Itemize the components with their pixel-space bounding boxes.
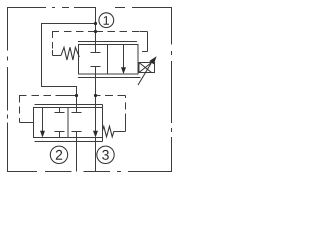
node A junction dot bbox=[94, 22, 97, 25]
pilot valve V1 flow arrow shaft bbox=[123, 45, 125, 69]
main valve V2 right envelope arrowhead bbox=[93, 131, 98, 138]
pilot line: node B to left envelope side bbox=[63, 95, 77, 97]
outer boundary right edge (chain line) bbox=[171, 7, 173, 172]
outer boundary bottom edge (chain line) bbox=[7, 171, 172, 173]
main valve V2 parallel line above bbox=[34, 104, 102, 106]
port 3 circle bbox=[97, 146, 114, 163]
main valve V2 right edge extension bbox=[102, 105, 104, 142]
node C junction dot bbox=[94, 30, 97, 33]
wire: pilot line below valve down to node D bbox=[95, 74, 97, 108]
main valve V2 spring pilot bracket bbox=[114, 121, 126, 132]
pilot valve V1 proportional line below bbox=[78, 77, 140, 79]
main valve V2 left envelope T bottom bbox=[55, 132, 65, 138]
pilot valve V1 proportional line above bbox=[78, 41, 137, 43]
pilot valve V1 envelope divider bbox=[107, 45, 109, 75]
wire: port 2 line bbox=[76, 138, 78, 172]
proportional solenoid S1 X diagonal 1 bbox=[139, 63, 152, 73]
curved / diagonal elements (anti-aliased) bbox=[50, 13, 151, 164]
main valve V2 left envelope arrowhead bbox=[40, 131, 45, 138]
port 1 circle bbox=[99, 13, 114, 28]
proportional solenoid S1 box bbox=[139, 63, 155, 73]
main valve V2 right envelope T top bbox=[72, 108, 82, 113]
main valve V2 spring bbox=[103, 126, 115, 137]
pilot line: node C to solenoid side (dashed) bbox=[96, 31, 141, 33]
pilot valve V1 body box bbox=[79, 45, 139, 75]
main valve V2 right envelope flow arrow shaft bbox=[95, 108, 97, 132]
main valve V2 parallel line below bbox=[34, 141, 102, 143]
port 1 label glyph bbox=[104, 16, 109, 25]
main valve V2 body box bbox=[34, 108, 103, 138]
node D junction dot bbox=[94, 94, 97, 97]
pilot valve V1 closed port T bottom bbox=[91, 67, 101, 75]
pilot valve V1 closed port T top bbox=[91, 45, 101, 53]
proportional solenoid S1 X diagonal 2 bbox=[139, 63, 152, 73]
pilot line: node C to spring side (dashed) bbox=[52, 31, 96, 33]
axis-aligned crisp lines bbox=[7, 7, 172, 172]
node B junction dot bbox=[75, 94, 78, 97]
wire: loop from node A around pilot valve to node B bbox=[42, 24, 96, 108]
outer boundary top edge (chain line) bbox=[7, 7, 172, 9]
main valve V2 right envelope T bottom bbox=[72, 132, 82, 138]
pilot line: spring side dashed up to node D bbox=[125, 96, 127, 121]
port 2 circle bbox=[50, 146, 67, 163]
port 3 label glyph bbox=[102, 150, 109, 160]
proportional solenoid S1 adjust arrowhead bbox=[149, 56, 156, 64]
wire: port 1 main line down to pilot valve bbox=[95, 7, 97, 45]
main valve V2 envelope divider bbox=[67, 108, 69, 138]
wire: port 3 line bbox=[95, 138, 97, 172]
outer boundary left edge (chain line) bbox=[7, 7, 9, 172]
main valve V2 left envelope flow arrow shaft bbox=[42, 108, 44, 132]
pilot valve V1 spring bbox=[61, 47, 79, 60]
proportional solenoid S1 adjust arrow shaft bbox=[138, 63, 151, 85]
pilot valve V1 flow arrowhead bbox=[121, 67, 126, 74]
port 2 label glyph bbox=[56, 150, 62, 160]
main valve V2 left envelope T top bbox=[55, 108, 65, 113]
